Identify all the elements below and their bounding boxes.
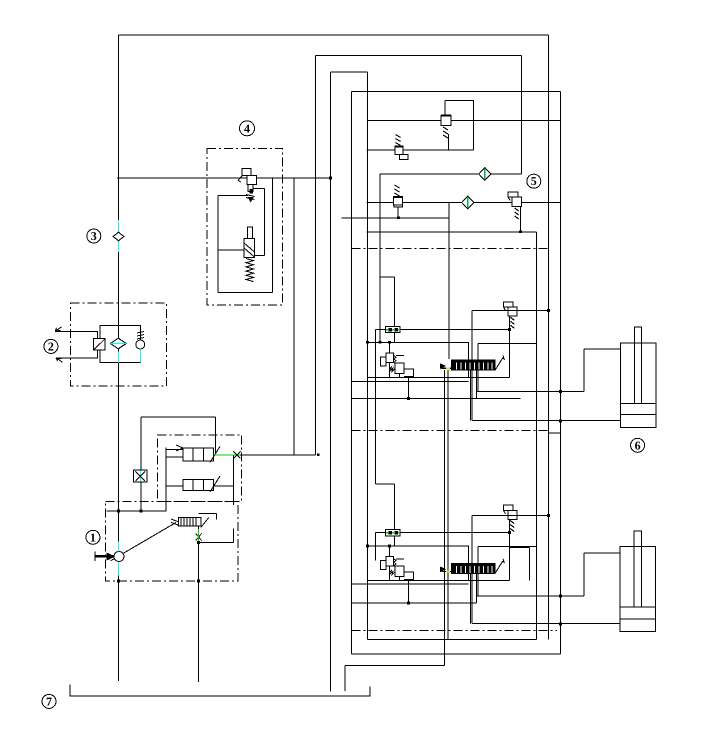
svg-text:6: 6 — [635, 438, 641, 452]
svg-text:1: 1 — [90, 530, 96, 544]
svg-text:2: 2 — [48, 339, 54, 353]
svg-text:7: 7 — [46, 694, 52, 708]
svg-text:3: 3 — [91, 229, 97, 243]
svg-text:5: 5 — [531, 174, 537, 188]
svg-text:4: 4 — [244, 121, 250, 135]
